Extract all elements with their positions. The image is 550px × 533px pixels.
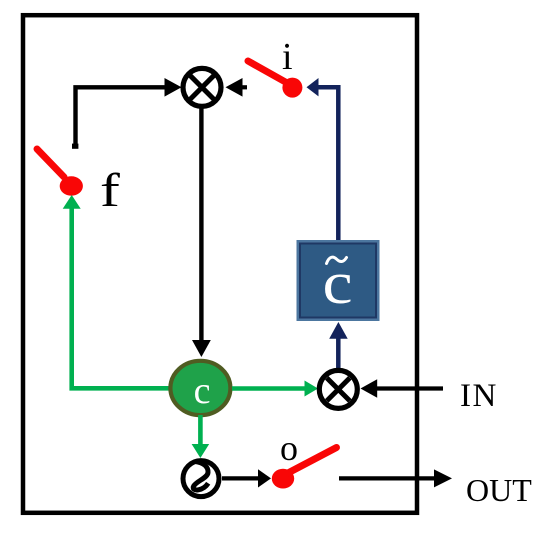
svg-text:c: c <box>194 370 211 412</box>
svg-text:i: i <box>282 36 293 78</box>
svg-text:OUT: OUT <box>466 472 532 508</box>
svg-text:o: o <box>280 428 298 468</box>
svg-text:f: f <box>100 163 120 216</box>
svg-text:IN: IN <box>460 378 498 414</box>
